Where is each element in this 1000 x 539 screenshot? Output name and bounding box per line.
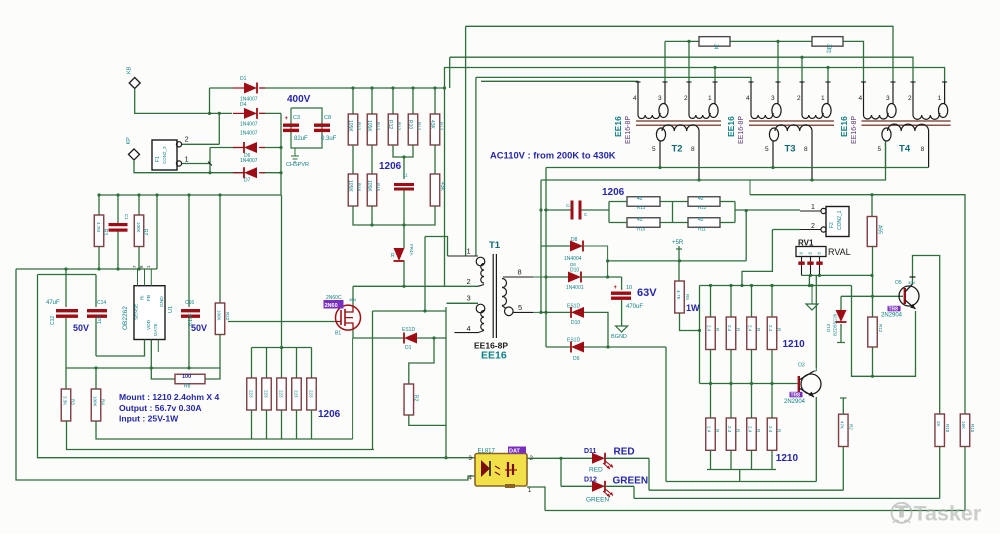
svg-text:EE16: EE16 [613, 116, 623, 137]
svg-text:CON2_1: CON2_1 [837, 210, 843, 230]
svg-text:C1: C1 [124, 214, 129, 220]
svg-text:42: 42 [637, 196, 643, 202]
svg-text:BZD55C20: BZD55C20 [833, 313, 838, 336]
svg-text:BGND: BGND [611, 334, 627, 340]
svg-text:4: 4 [859, 95, 863, 102]
svg-text:R1: R1 [102, 229, 108, 236]
svg-text:2N2904: 2N2904 [784, 399, 806, 405]
svg-text:GREEN: GREEN [586, 497, 609, 504]
svg-text:+: + [614, 285, 618, 291]
svg-text:J3: J3 [826, 49, 832, 55]
svg-text:2K: 2K [936, 421, 941, 427]
svg-text:105K: 105K [366, 180, 372, 192]
svg-text:223: 223 [309, 390, 314, 398]
svg-text:8: 8 [518, 268, 522, 277]
svg-text:Input : 25V-1W: Input : 25V-1W [119, 414, 179, 424]
svg-text:R12: R12 [357, 122, 362, 131]
svg-text:1: 1 [811, 204, 815, 211]
svg-text:+: + [285, 116, 289, 122]
svg-text:R18: R18 [945, 424, 950, 433]
svg-text:R12: R12 [397, 122, 402, 131]
svg-text:1: 1 [708, 95, 712, 102]
svg-text:100K: 100K [217, 310, 222, 321]
svg-text:D1: D1 [405, 345, 412, 351]
svg-text:GREEN: GREEN [613, 476, 649, 487]
svg-text:D13: D13 [826, 323, 831, 332]
svg-text:R8: R8 [184, 384, 191, 390]
svg-text:T3: T3 [785, 144, 796, 155]
svg-text:1: 1 [185, 155, 189, 164]
svg-text:M: M [818, 252, 821, 256]
svg-text:1W: 1W [686, 303, 700, 313]
svg-text:4N4: 4N4 [349, 297, 357, 302]
svg-text:R10: R10 [407, 120, 413, 129]
svg-text:1: 1 [821, 95, 825, 102]
svg-text:2.4: 2.4 [748, 426, 753, 433]
svg-text:Mount : 1210 2.4ohm X 4: Mount : 1210 2.4ohm X 4 [119, 392, 220, 402]
svg-text:EL817: EL817 [478, 449, 496, 455]
svg-text:R: R [391, 253, 395, 259]
svg-text:223: 223 [294, 390, 299, 398]
svg-text:D8: D8 [571, 237, 578, 243]
svg-text:43K: 43K [439, 182, 445, 192]
svg-text:O5: O5 [895, 280, 902, 286]
svg-text:3: 3 [658, 95, 662, 102]
svg-text:63V: 63V [637, 287, 657, 299]
svg-text:TR8: TR8 [791, 393, 801, 399]
svg-text:D10: D10 [570, 268, 579, 274]
svg-text:VDD: VDD [146, 319, 152, 330]
svg-text:2: 2 [185, 135, 189, 144]
svg-text:105K: 105K [347, 180, 353, 192]
svg-text:EE16-8P: EE16-8P [738, 116, 745, 144]
svg-text:1N4007: 1N4007 [240, 131, 258, 137]
svg-text:ES1D: ES1D [567, 338, 580, 344]
svg-text:1N4001: 1N4001 [566, 285, 584, 291]
svg-text:EE16: EE16 [481, 350, 507, 362]
svg-text:R2: R2 [413, 395, 419, 402]
svg-text:4: 4 [633, 95, 637, 102]
svg-text:R12: R12 [878, 324, 883, 333]
svg-text:1206: 1206 [318, 409, 341, 420]
svg-text:CHSPVR: CHSPVR [286, 162, 309, 168]
svg-text:D8: D8 [570, 262, 576, 267]
svg-text:8: 8 [691, 146, 695, 153]
svg-text:2: 2 [797, 95, 801, 102]
svg-text:T1: T1 [489, 240, 501, 251]
svg-text:16K: 16K [961, 421, 966, 429]
svg-text:2N2904: 2N2904 [881, 313, 903, 319]
svg-text:R16: R16 [357, 183, 362, 192]
svg-text:GATE: GATE [153, 323, 159, 336]
svg-text:1206: 1206 [379, 161, 402, 172]
svg-text:R12: R12 [376, 122, 381, 131]
svg-text:82uF: 82uF [294, 136, 308, 142]
svg-text:47K: 47K [840, 421, 845, 429]
svg-text:OB2262: OB2262 [122, 306, 129, 330]
svg-text:105K: 105K [347, 120, 353, 132]
svg-text:D1: D1 [240, 76, 247, 82]
svg-text:O3: O3 [798, 363, 805, 369]
svg-text:C12: C12 [50, 316, 56, 325]
svg-text:M: M [809, 252, 812, 256]
svg-text:50V: 50V [191, 323, 207, 333]
svg-text:+5R: +5R [672, 240, 684, 246]
svg-text:Tasker: Tasker [914, 502, 982, 526]
svg-text:1210: 1210 [776, 453, 799, 464]
svg-text:42: 42 [698, 196, 704, 202]
svg-text:2: 2 [908, 95, 912, 102]
svg-text:8: 8 [804, 146, 808, 153]
svg-text:F1: F1 [155, 156, 161, 162]
svg-text:B1: B1 [335, 331, 341, 337]
svg-text:EE16: EE16 [839, 116, 849, 137]
svg-text:2.4: 2.4 [707, 325, 712, 332]
svg-text:42: 42 [637, 217, 643, 223]
svg-text:RVAL: RVAL [828, 247, 851, 257]
svg-text:D7: D7 [244, 178, 251, 184]
svg-text:EE16: EE16 [726, 116, 736, 137]
svg-text:CON2_3: CON2_3 [162, 146, 167, 164]
svg-text:2: 2 [684, 95, 688, 102]
svg-text:43K: 43K [429, 120, 435, 130]
svg-text:223: 223 [249, 390, 254, 398]
svg-text:4.7K: 4.7K [675, 290, 681, 301]
svg-text:ES1D: ES1D [402, 327, 415, 333]
svg-text:223: 223 [264, 390, 269, 398]
svg-text:FR4A: FR4A [409, 244, 414, 256]
svg-text:U1: U1 [168, 306, 174, 313]
svg-text:223: 223 [279, 390, 284, 398]
svg-text:0.3uF: 0.3uF [321, 136, 337, 142]
svg-text:3.3K: 3.3K [63, 396, 68, 405]
svg-text:R11: R11 [698, 227, 706, 232]
svg-text:A55: A55 [877, 225, 883, 234]
svg-text:R2: R2 [142, 229, 148, 236]
svg-text:R15: R15 [970, 424, 975, 433]
svg-text:1: 1 [938, 95, 942, 102]
svg-text:Output : 56.7v 0.30A: Output : 56.7v 0.30A [119, 403, 202, 413]
svg-text:SENSE: SENSE [134, 304, 140, 320]
svg-text:2.4: 2.4 [727, 325, 732, 332]
svg-text:47uF: 47uF [46, 300, 60, 306]
svg-text:R12: R12 [417, 122, 422, 131]
svg-text:1uF: 1uF [97, 315, 103, 324]
svg-text:1N4007: 1N4007 [240, 122, 258, 128]
svg-text:42: 42 [698, 217, 704, 223]
svg-text:R3: R3 [71, 399, 76, 405]
svg-text:1210: 1210 [783, 339, 806, 350]
svg-text:4: 4 [467, 324, 471, 333]
svg-text:R12: R12 [439, 122, 444, 131]
svg-text:C14: C14 [97, 300, 106, 306]
svg-text:C16: C16 [185, 300, 194, 306]
svg-text:8: 8 [921, 146, 925, 153]
svg-text:100K: 100K [136, 222, 141, 233]
svg-text:5: 5 [765, 146, 769, 153]
svg-text:2.4: 2.4 [768, 426, 773, 433]
svg-text:D9: D9 [573, 356, 580, 362]
svg-text:C8: C8 [324, 115, 331, 121]
svg-text:KB: KB [127, 66, 133, 74]
svg-text:D12: D12 [584, 477, 597, 484]
svg-text:400V: 400V [287, 94, 311, 105]
svg-text:100K: 100K [93, 396, 98, 407]
svg-text:D11: D11 [584, 448, 597, 455]
svg-text:R4: R4 [101, 399, 106, 405]
svg-text:2.4: 2.4 [748, 325, 753, 332]
svg-text:GND: GND [159, 296, 165, 307]
svg-text:F2: F2 [829, 222, 835, 228]
svg-text:RI: RI [140, 296, 145, 301]
svg-text:RED: RED [589, 467, 603, 474]
svg-text:11: 11 [403, 173, 408, 178]
svg-text:4: 4 [746, 95, 750, 102]
svg-text:5: 5 [652, 146, 656, 153]
svg-text:2.4: 2.4 [707, 426, 712, 433]
svg-text:4.7M: 4.7M [96, 222, 101, 232]
svg-text:C4: C4 [566, 203, 572, 208]
svg-text:3: 3 [771, 95, 775, 102]
svg-text:M: M [800, 252, 803, 256]
svg-text:50V: 50V [73, 323, 89, 333]
svg-text:3: 3 [467, 294, 471, 303]
svg-text:2: 2 [467, 277, 471, 286]
svg-text:D4: D4 [240, 102, 247, 108]
svg-text:10: 10 [626, 285, 632, 291]
svg-text:ES1D: ES1D [567, 304, 580, 310]
svg-text:D10: D10 [571, 320, 580, 326]
svg-text:R9: R9 [685, 294, 690, 300]
svg-text:2.4: 2.4 [768, 325, 773, 332]
svg-text:5: 5 [878, 146, 882, 153]
svg-text:5: 5 [518, 303, 522, 312]
svg-text:2.4: 2.4 [727, 426, 732, 433]
svg-text:T4: T4 [899, 144, 911, 155]
svg-text:R13: R13 [637, 205, 646, 210]
svg-text:R15: R15 [376, 183, 381, 192]
svg-text:RED: RED [614, 447, 635, 458]
svg-text:2: 2 [811, 223, 815, 230]
svg-text:C3: C3 [293, 115, 300, 121]
svg-text:2N60: 2N60 [325, 303, 338, 309]
svg-text:R12: R12 [387, 120, 393, 129]
svg-text:EE16-8P: EE16-8P [851, 116, 858, 144]
svg-text:3: 3 [886, 95, 890, 102]
svg-text:1N4007: 1N4007 [240, 158, 258, 164]
svg-text:100: 100 [182, 374, 191, 380]
svg-text:AC110V : from 200K to 430K: AC110V : from 200K to 430K [490, 150, 616, 161]
svg-text:1206: 1206 [602, 187, 625, 198]
svg-text:DAT: DAT [509, 449, 521, 455]
svg-text:R10: R10 [637, 227, 646, 232]
svg-text:1: 1 [467, 247, 471, 256]
svg-text:R12: R12 [698, 205, 707, 210]
svg-text:FB: FB [146, 295, 152, 301]
svg-text:R2: R2 [849, 424, 854, 430]
svg-text:EE16-8P: EE16-8P [625, 116, 632, 144]
svg-text:105K: 105K [366, 120, 372, 132]
svg-text:J4: J4 [713, 44, 719, 50]
svg-text:R22: R22 [225, 312, 230, 321]
svg-text:T2: T2 [672, 144, 683, 155]
svg-text:30V: 30V [908, 280, 915, 285]
svg-text:470uF: 470uF [626, 304, 643, 310]
svg-text:KP: KP [126, 137, 132, 145]
